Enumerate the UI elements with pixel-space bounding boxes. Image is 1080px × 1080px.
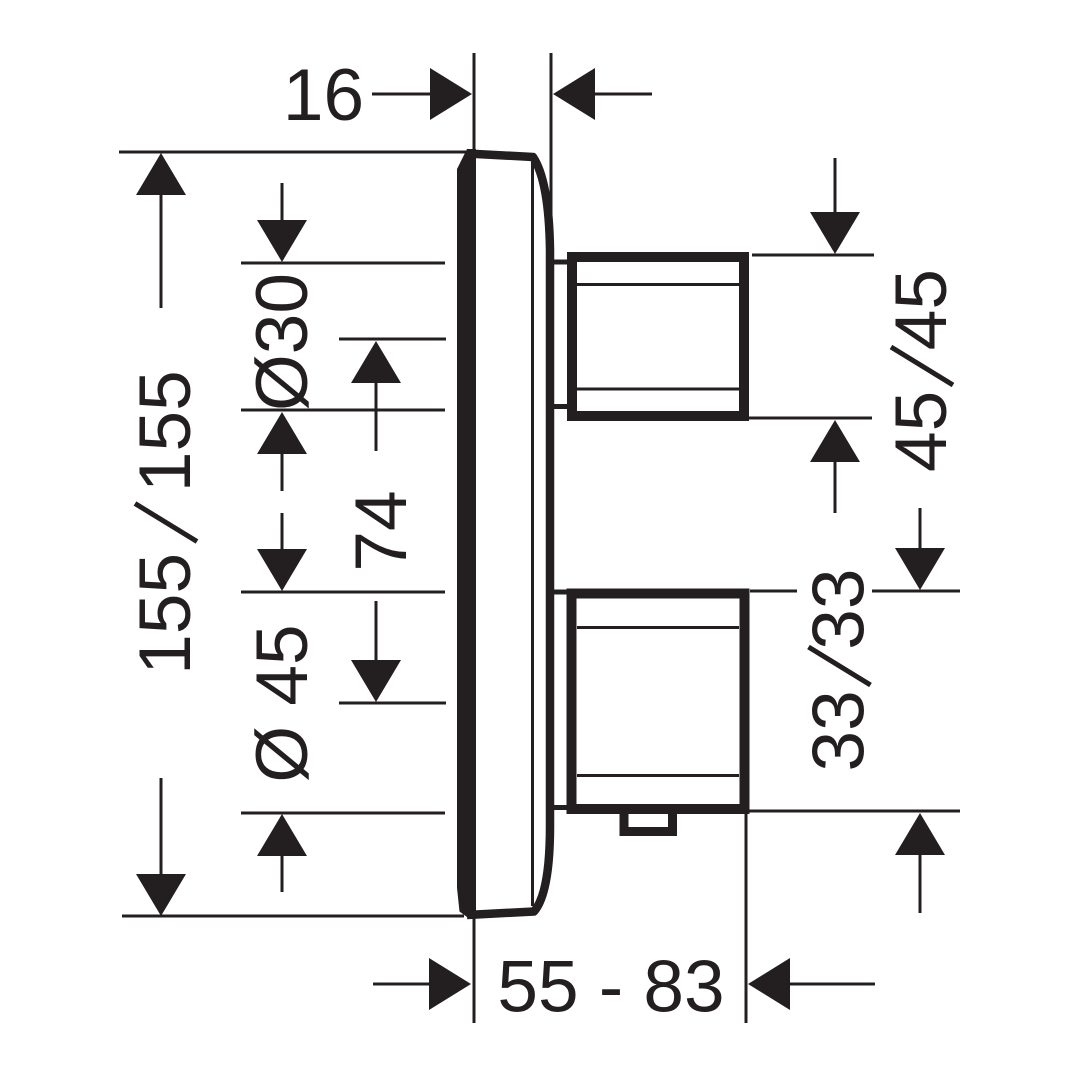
arrowhead 33/33 top (down) xyxy=(895,548,945,590)
arrowhead O45 bottom (up) xyxy=(257,814,307,856)
55-83 arrow tail left xyxy=(373,983,430,986)
lower handle stem bottom line xyxy=(548,805,570,810)
arrowhead O30 top (down) xyxy=(257,220,307,262)
arrowhead 74 bottom (down) xyxy=(351,660,401,702)
33/33 arrow tail bottom xyxy=(919,854,922,913)
lower handle inner line top xyxy=(577,626,739,629)
O30 arrow tail top xyxy=(281,183,284,222)
dimension line 74 top xyxy=(339,338,446,341)
arrowhead 16 right (left-pointing) xyxy=(553,68,595,120)
dimension line 74 bottom xyxy=(339,702,446,705)
extension line 45/45 top right xyxy=(752,254,874,257)
extension line 33/33 bottom right xyxy=(743,810,960,813)
lower handle body xyxy=(572,594,745,810)
extension line O30 bottom xyxy=(241,409,445,412)
extension line 55-83 left vertical xyxy=(473,918,476,1023)
extension line 55-83 right vertical xyxy=(745,811,748,1023)
svg-text:74: 74 xyxy=(341,490,422,571)
svg-text:45 /45: 45 /45 xyxy=(881,269,962,472)
svg-text:33 /33: 33 /33 xyxy=(799,569,880,772)
arrowhead O45 top (down) xyxy=(257,549,307,591)
upper handle body xyxy=(572,257,744,416)
extension line 16 left vertical xyxy=(473,53,476,151)
upper handle inner line top xyxy=(577,283,739,286)
upper handle stem bottom line xyxy=(548,404,570,409)
slash of 45 /45 xyxy=(891,347,953,385)
lower handle safety stop tab xyxy=(624,810,673,832)
escutcheon plate outer edge (top, curved back side, bottom) xyxy=(467,154,550,916)
svg-text:Ø30: Ø30 xyxy=(242,273,323,411)
arrowhead 55-83 right (left-pointing) xyxy=(748,958,790,1010)
extension line O30 top xyxy=(241,262,445,265)
74 arrow tail bottom xyxy=(375,601,378,661)
45/45 arrow tail top xyxy=(834,158,837,213)
O45 arrow tail top xyxy=(281,513,284,550)
arrowhead 45/45 top (down) xyxy=(810,212,860,254)
extension line 33/33 top right (right stub) xyxy=(872,590,960,593)
arrowhead 155 top (up) xyxy=(136,153,186,195)
extension line bottom-left (plate bottom, 155 dim) xyxy=(122,915,464,918)
arrowhead 16 left (right-pointing) xyxy=(430,68,472,120)
16 arrow tail left xyxy=(372,93,430,96)
escutcheon plate inner edge line xyxy=(531,162,534,906)
74 arrow tail top xyxy=(375,382,378,451)
arrowhead 74 top (up) xyxy=(351,341,401,383)
svg-text:Ø 45: Ø 45 xyxy=(242,624,323,782)
escutcheon plate front face (thick bar) xyxy=(457,149,476,917)
O30 arrow tail bottom xyxy=(281,452,284,491)
arrowhead 45/45 bottom (up) xyxy=(810,420,860,462)
O45 arrow tail bottom xyxy=(281,856,284,892)
arrowhead 55-83 left (right-pointing) xyxy=(429,958,471,1010)
extension line O45 top xyxy=(241,591,445,594)
extension line top-left (plate top, 155 dim) xyxy=(119,151,466,154)
extension line 33/33 top right (left stub) xyxy=(750,590,797,593)
slash of 155 / 155 xyxy=(135,504,197,542)
dimension line 155/155 upper segment xyxy=(160,194,163,308)
16 arrow tail right xyxy=(594,93,652,96)
upper handle stem top line xyxy=(548,260,570,265)
arrowhead 33/33 bottom (up) xyxy=(895,813,945,855)
extension line 16 right vertical xyxy=(550,53,553,248)
slash of 33 /33 xyxy=(809,647,871,685)
arrowhead O30 bottom (up) xyxy=(257,412,307,454)
55-83 arrow tail right xyxy=(789,983,875,986)
svg-text:16: 16 xyxy=(283,55,364,136)
33/33 arrow tail top xyxy=(919,508,922,549)
upper handle inner line bottom xyxy=(577,388,739,391)
extension line O45 bottom xyxy=(241,812,445,815)
arrowhead 155 bottom (down) xyxy=(136,874,186,916)
lower handle stem top line xyxy=(548,590,570,595)
dimension line 155/155 lower segment xyxy=(160,778,163,876)
lower handle inner line bottom xyxy=(577,774,739,777)
45/45 arrow tail bottom xyxy=(834,461,837,513)
extension line 45/45 bottom right xyxy=(747,417,872,420)
svg-text:55 - 83: 55 - 83 xyxy=(497,947,724,1028)
